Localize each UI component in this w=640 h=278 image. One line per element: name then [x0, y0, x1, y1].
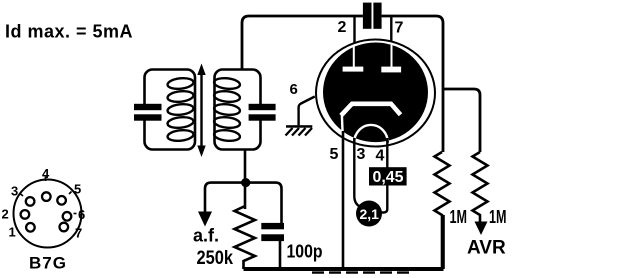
capacitor 100p — [261, 223, 284, 229]
svg-text:B7G: B7G — [29, 254, 67, 273]
svg-text:6: 6 — [290, 81, 298, 98]
capacitor C1 — [134, 104, 162, 110]
B7G pin 3 — [26, 197, 35, 206]
diode plate pin2 — [353, 46, 355, 67]
diode plate pin7 — [391, 45, 393, 67]
tube V1 inner electrode disc — [323, 43, 428, 143]
rail dashes — [312, 271, 414, 273]
wire pin3 — [354, 138, 362, 208]
pin5 lead inside tube — [341, 113, 344, 133]
svg-text:5: 5 — [330, 146, 339, 163]
wire 100p branch — [246, 183, 282, 223]
tank circuit frame L2/C2 — [215, 70, 261, 150]
svg-text:4: 4 — [376, 148, 385, 165]
B7G pin 6 — [63, 212, 72, 221]
capacitor C2 — [249, 104, 276, 110]
wire tank L2 top to rail — [242, 16, 363, 70]
B7G pin 7 — [60, 223, 69, 232]
svg-text:3: 3 — [11, 184, 18, 199]
B7G pin 2 — [21, 210, 30, 219]
wire top rail right — [382, 16, 443, 152]
svg-text:250k: 250k — [197, 248, 234, 269]
svg-text:2,1: 2,1 — [360, 206, 380, 222]
svg-text:2: 2 — [2, 207, 9, 222]
wire tank L2 bottom to junction — [244, 150, 247, 210]
svg-text:3: 3 — [357, 146, 366, 163]
node junction — [241, 178, 250, 187]
rail right corner — [442, 215, 445, 269]
svg-text:5: 5 — [74, 182, 81, 197]
svg-text:7: 7 — [75, 226, 82, 241]
svg-text:1M: 1M — [450, 207, 468, 227]
wire a.f. branch — [205, 183, 245, 213]
B7G pin 4 — [42, 192, 51, 201]
svg-text:2: 2 — [338, 19, 347, 36]
wire pin2 riser — [353, 16, 355, 48]
ground — [286, 125, 312, 128]
resistor R2 1M — [473, 152, 488, 222]
resistor 250k — [235, 206, 256, 269]
wire pin4 — [381, 138, 388, 213]
svg-text:a.f.: a.f. — [193, 226, 219, 246]
svg-text:7: 7 — [395, 20, 404, 37]
svg-text:100p: 100p — [287, 241, 323, 262]
wire pin6 — [299, 97, 315, 126]
coil L2 — [214, 77, 241, 142]
svg-text:6: 6 — [78, 207, 85, 222]
wire branch to R2 — [443, 89, 480, 152]
label 2,1 disc — [356, 201, 382, 227]
svg-text:1M: 1M — [489, 207, 507, 227]
svg-text:1: 1 — [9, 225, 16, 240]
anode hat — [341, 104, 401, 116]
AVR arrow — [475, 222, 488, 236]
coil L1 — [167, 77, 194, 142]
svg-text:Id max. = 5mA: Id max. = 5mA — [5, 22, 133, 42]
a.f. arrow — [198, 212, 212, 227]
svg-text:AVR: AVR — [467, 238, 506, 259]
wire pin7 riser — [390, 16, 392, 47]
coupling arrow — [200, 73, 202, 147]
capacitor C3 top coupling — [363, 3, 372, 29]
cathode circle — [354, 125, 388, 143]
B7G pin 1 — [26, 223, 35, 232]
label 0,45 box — [369, 167, 407, 185]
bottom rail wire — [244, 267, 444, 271]
B7G base circle — [14, 180, 82, 248]
tube V1 envelope — [316, 40, 435, 147]
B7G pin 5 — [57, 196, 66, 205]
wire pin5 — [342, 131, 345, 269]
tank circuit frame L1/C1 — [145, 70, 196, 150]
resistor R1 1M — [435, 152, 450, 269]
svg-text:0,45: 0,45 — [373, 169, 404, 186]
